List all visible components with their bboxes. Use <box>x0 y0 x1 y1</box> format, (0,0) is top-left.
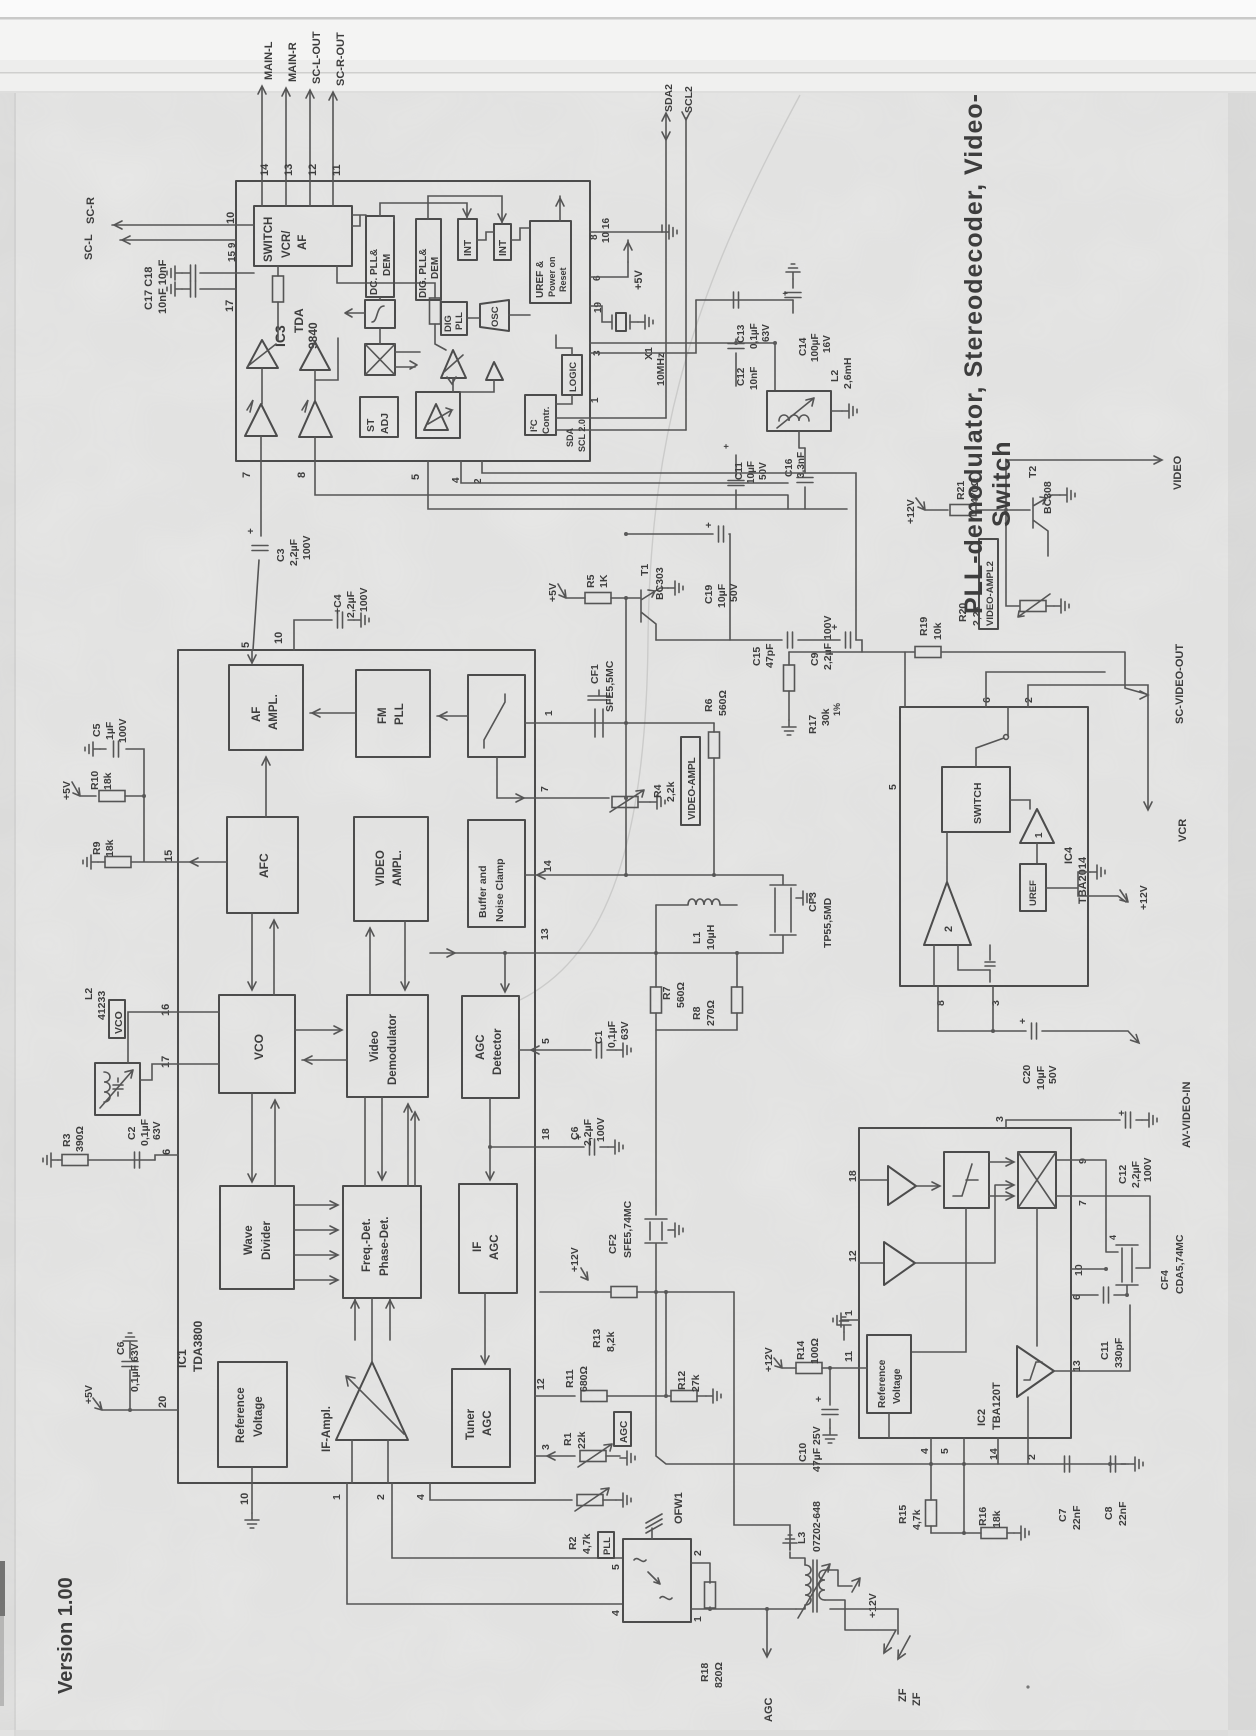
svg-text:C5: C5 <box>91 723 103 737</box>
svg-text:SWITCH: SWITCH <box>972 783 984 824</box>
svg-text:INT: INT <box>463 240 474 256</box>
svg-text:3,3nF: 3,3nF <box>796 452 807 478</box>
svg-text:UREF &: UREF & <box>535 261 546 298</box>
wire node15 <box>131 796 178 862</box>
box switch IC4 <box>942 767 1010 832</box>
capacitor C3 2.2uF 100V <box>252 546 268 551</box>
wire agcdet-ifagc <box>489 1098 491 1178</box>
svg-text:560Ω: 560Ω <box>675 982 687 1008</box>
box tuner AGC <box>452 1369 510 1467</box>
op-amp tri A1 <box>247 340 278 368</box>
wire SC-R input <box>112 224 254 226</box>
svg-text:1: 1 <box>331 1494 343 1500</box>
wire C15 C9 row <box>656 640 862 652</box>
wire pin5 column <box>963 1438 965 1533</box>
svg-text:VCR/: VCR/ <box>281 230 293 258</box>
svg-text:C6: C6 <box>115 1341 127 1355</box>
svg-text:8: 8 <box>935 1000 947 1006</box>
svg-text:63V: 63V <box>151 1121 163 1140</box>
box deemphasis switch <box>468 675 525 757</box>
box I2C Contr <box>525 395 556 435</box>
box AF AMPL <box>229 665 303 750</box>
capacitor C1 0.1uF 63V <box>597 1042 602 1058</box>
svg-text:2,6mH: 2,6mH <box>842 357 854 389</box>
svg-text:+: + <box>780 291 790 296</box>
svg-text:0,1µF 63V: 0,1µF 63V <box>129 1343 141 1392</box>
wire R19 to IC4 <box>904 652 906 707</box>
svg-text:C2: C2 <box>126 1126 138 1140</box>
switch block SWITCH VCR/AF <box>254 206 352 266</box>
op-amp tri 1 <box>1020 809 1054 843</box>
svg-text:AV-VIDEO-IN: AV-VIDEO-IN <box>1181 1082 1193 1148</box>
wire wavediv-freqdet 4 <box>294 1279 336 1281</box>
ground R3 <box>43 1153 58 1167</box>
resistor R9 18k <box>105 857 131 868</box>
wire L3 right +12V <box>825 1570 852 1586</box>
svg-text:C10: C10 <box>797 1443 809 1462</box>
svg-text:63V: 63V <box>619 1021 631 1040</box>
wire pin14 pin2 drops <box>998 1438 1028 1464</box>
power +5V T1 <box>558 584 585 598</box>
wire refvolt to bus <box>251 1467 253 1483</box>
capacitor C6 0.1uF 63V <box>129 1348 131 1410</box>
capacitor C17 <box>200 272 254 274</box>
svg-text:20: 20 <box>157 1396 169 1408</box>
wire wavediv-freqdet 1 <box>294 1204 336 1206</box>
svg-text:7: 7 <box>241 472 253 478</box>
svg-text:2,2µF: 2,2µF <box>582 1118 594 1146</box>
resistor internal R-b <box>430 298 441 324</box>
svg-text:Reference: Reference <box>235 1387 247 1443</box>
svg-text:+12V: +12V <box>867 1593 879 1618</box>
wire coil to pin16 <box>128 1012 219 1063</box>
version <box>1026 1685 1029 1688</box>
svg-text:R5: R5 <box>585 574 597 588</box>
svg-text:1µF: 1µF <box>104 721 116 740</box>
wire tri12 to mixer <box>915 1185 1012 1263</box>
svg-text:CF1: CF1 <box>589 664 601 684</box>
svg-text:SCL 2.0: SCL 2.0 <box>577 419 587 452</box>
svg-text:63V: 63V <box>761 324 772 342</box>
svg-text:R4: R4 <box>652 784 664 798</box>
svg-text:10µF: 10µF <box>716 583 728 608</box>
svg-text:ST: ST <box>365 418 377 432</box>
svg-text:2: 2 <box>943 926 955 932</box>
resistor R16 18k <box>981 1528 1007 1539</box>
svg-text:L2: L2 <box>83 988 95 1000</box>
svg-text:11: 11 <box>331 164 343 176</box>
svg-text:0,1µF: 0,1µF <box>749 323 760 349</box>
wire VIDEO out <box>1006 460 1160 510</box>
svg-text:Noise Clamp: Noise Clamp <box>494 858 506 922</box>
svg-text:C3: C3 <box>275 548 287 562</box>
svg-text:3: 3 <box>994 1116 1006 1122</box>
svg-text:8,2k: 8,2k <box>605 1331 617 1352</box>
resistor R12 27k <box>671 1391 697 1402</box>
wire audio out 13 <box>285 90 287 206</box>
resistor R15 4.7k <box>930 1438 932 1500</box>
wire pin2 riser VCR <box>1028 685 1148 808</box>
wire VCO to vdemod a <box>295 1029 340 1031</box>
capacitor C11 330pF <box>1071 1294 1127 1296</box>
svg-text:MAIN-R: MAIN-R <box>287 42 299 82</box>
svg-text:13: 13 <box>1071 1360 1083 1372</box>
svg-text:8: 8 <box>296 472 308 478</box>
svg-text:SC-L-OUT: SC-L-OUT <box>311 31 323 84</box>
capacitor C9 2.2uF 100V <box>846 632 851 648</box>
svg-text:AGC: AGC <box>489 1234 501 1260</box>
label VIDEO-AMPL2 boxed <box>979 539 998 629</box>
svg-text:R6: R6 <box>703 698 715 712</box>
box LOGIC <box>562 355 582 395</box>
svg-text:FM: FM <box>377 707 389 724</box>
svg-text:2: 2 <box>375 1494 387 1500</box>
capacitor C14 100uF 16V <box>792 279 794 313</box>
svg-text:Switch: Switch <box>988 440 1016 527</box>
svg-text:PLL: PLL <box>394 703 406 725</box>
op-amp tri 12 <box>859 1262 884 1264</box>
svg-text:2,2µF: 2,2µF <box>288 538 300 566</box>
svg-text:Contr.: Contr. <box>541 407 552 434</box>
box limiter amp <box>416 392 460 438</box>
wire 15 arrow <box>190 858 198 866</box>
svg-text:SWITCH: SWITCH <box>263 217 275 262</box>
wire pin8 to AV row <box>937 986 939 1031</box>
wire R19 row <box>789 652 1146 694</box>
svg-text:9: 9 <box>1077 1158 1089 1164</box>
wire pin8-16 riser <box>661 225 663 232</box>
wire logic i2c <box>556 335 572 404</box>
svg-text:2,2µF: 2,2µF <box>345 590 357 618</box>
svg-text:07Z02-648: 07Z02-648 <box>811 1501 823 1552</box>
svg-text:+C4: +C4 <box>332 594 344 614</box>
svg-text:C15: C15 <box>751 647 763 666</box>
power +5V bottom left <box>93 1398 178 1410</box>
svg-text:VCO: VCO <box>252 1034 266 1060</box>
resistor R21 470 <box>950 505 976 516</box>
wire hyst to mixer a <box>989 1161 1012 1163</box>
wire pin5 C1 row <box>519 1049 616 1051</box>
wire wavediv-freqdet 3 <box>294 1254 336 1256</box>
ground near pin11 <box>843 1332 845 1340</box>
wire switch top bus <box>352 215 394 226</box>
op-amp tri A6 <box>486 362 503 380</box>
svg-text:14: 14 <box>259 163 271 176</box>
svg-text:10: 10 <box>1073 1264 1085 1276</box>
svg-text:T2: T2 <box>1027 466 1039 478</box>
svg-text:AMPL.: AMPL. <box>268 694 280 730</box>
wire demod out pin13 <box>1054 1305 1130 1371</box>
wire pin10 row <box>1071 1268 1106 1270</box>
svg-text:15 9: 15 9 <box>227 242 238 262</box>
svg-text:MAIN-L: MAIN-L <box>263 41 275 80</box>
svg-text:C13: C13 <box>736 324 747 343</box>
resistor internal R-a <box>277 266 279 276</box>
svg-text:1: 1 <box>843 1310 855 1316</box>
wire vampl-vdemod b <box>404 921 406 988</box>
box OSC <box>480 300 509 331</box>
svg-text:47pF: 47pF <box>764 643 776 668</box>
wire pin3 row R1 <box>535 1455 575 1457</box>
svg-text:R19: R19 <box>918 617 930 636</box>
svg-text:12: 12 <box>847 1250 859 1262</box>
wire wavediv-freqdet 2 <box>294 1229 336 1231</box>
wire VCO-wave divider a <box>251 1093 253 1180</box>
wire switch contact <box>976 707 1008 767</box>
wire top cap rail <box>696 299 793 301</box>
svg-text:T1: T1 <box>639 564 651 576</box>
wire int bus a <box>380 203 467 219</box>
capacitor C18 <box>200 288 236 290</box>
resistor R2 4.7k variable <box>577 1495 603 1506</box>
wire refvolt down <box>888 1413 890 1438</box>
wire pin4 R2 <box>430 1483 572 1500</box>
wire node column R11 R12 <box>665 1292 667 1396</box>
wire R16 row <box>931 1532 1014 1534</box>
svg-text:AF: AF <box>251 707 263 722</box>
svg-text:100Ω: 100Ω <box>809 1338 821 1364</box>
box VCO <box>219 995 295 1093</box>
resistor R19 10k <box>915 647 941 658</box>
wire pin18 C6 row <box>490 1146 608 1148</box>
svg-text:VIDEO-AMPL: VIDEO-AMPL <box>687 757 698 820</box>
svg-text:ZF: ZF <box>897 1688 909 1702</box>
wire AFC to AF AMPL <box>265 757 267 817</box>
wire CF1 row pin1 <box>525 722 714 724</box>
svg-text:6: 6 <box>161 1149 173 1155</box>
svg-text:C6: C6 <box>569 1126 581 1140</box>
op-amp tri A3 <box>245 404 277 436</box>
svg-text:13: 13 <box>539 928 551 940</box>
wire sw right leg <box>337 266 435 298</box>
svg-text:BC303: BC303 <box>654 567 666 600</box>
svg-text:10µF: 10µF <box>1035 1065 1047 1090</box>
svg-text:4: 4 <box>610 1610 622 1616</box>
svg-text:C7: C7 <box>1057 1508 1069 1522</box>
wire ifagc-tuneragc <box>484 1293 486 1362</box>
filter CF2 SFE5.74MC <box>645 1219 667 1292</box>
wire AFC-VCO a <box>251 913 253 988</box>
wire pin12 row <box>535 1395 575 1397</box>
svg-text:820Ω: 820Ω <box>713 1662 725 1688</box>
resistor R13 8.2k <box>540 1291 610 1293</box>
svg-text:R17: R17 <box>807 715 819 734</box>
wire FM PLL to AF AMPL <box>310 712 356 714</box>
power +5V arrow IC3 <box>627 240 629 262</box>
wire pin18 bus <box>590 342 775 344</box>
wire IC3 pin2 line <box>482 461 856 640</box>
svg-text:3: 3 <box>990 1000 1002 1006</box>
svg-text:3: 3 <box>540 1444 552 1450</box>
svg-text:15: 15 <box>163 850 175 862</box>
ground pin10 <box>251 1483 253 1513</box>
svg-text:22nF: 22nF <box>1117 1501 1129 1526</box>
svg-text:DC. PLL&: DC. PLL& <box>369 249 380 295</box>
wire mixer down to demod <box>1036 1208 1038 1346</box>
box reference voltage IC2 <box>867 1335 911 1413</box>
svg-text:4: 4 <box>919 1448 931 1454</box>
svg-text:+5V: +5V <box>633 269 645 290</box>
svg-text:R18: R18 <box>699 1663 711 1682</box>
wire tri1 input <box>1010 800 1030 809</box>
wire demodline <box>345 309 365 317</box>
mixer box IC2 <box>1018 1152 1056 1208</box>
svg-text:Video: Video <box>369 1031 381 1062</box>
wire pin1 to OFW1 <box>347 1483 623 1604</box>
box video ampl <box>354 817 428 921</box>
svg-text:1: 1 <box>692 1616 704 1622</box>
svg-text:VIDEO: VIDEO <box>1172 455 1184 490</box>
svg-text:680Ω: 680Ω <box>578 1366 590 1392</box>
wire switch to FM PLL <box>437 715 468 717</box>
svg-text:C12: C12 <box>1117 1165 1129 1184</box>
svg-text:R7: R7 <box>661 986 673 1000</box>
wire uref feed <box>477 228 530 240</box>
box IF AGC <box>459 1184 517 1293</box>
power +12V IC4 <box>1078 888 1126 902</box>
svg-text:0,1µF: 0,1µF <box>606 1020 618 1048</box>
svg-text:6: 6 <box>592 275 603 281</box>
box INT 1 <box>458 219 477 260</box>
capacitor C12 10nF <box>735 339 737 386</box>
svg-text:BC308: BC308 <box>1042 481 1054 514</box>
resistor R17 30k <box>788 652 790 665</box>
svg-text:6: 6 <box>981 697 993 703</box>
wire A6 dn <box>460 380 494 392</box>
transistor T2 BC308 <box>1033 495 1060 556</box>
svg-text:18k: 18k <box>991 1510 1003 1528</box>
resistor R5 1K <box>585 593 611 604</box>
wire hyst to mixer b <box>989 1195 1012 1197</box>
svg-text:TBA120T: TBA120T <box>991 1382 1003 1430</box>
svg-text:I²C: I²C <box>529 419 540 432</box>
wire SCL2 riser <box>685 118 687 430</box>
crystal X1 10MHz <box>612 315 630 329</box>
svg-text:R1: R1 <box>562 1432 574 1446</box>
wire L2 bottom <box>799 431 805 448</box>
svg-text:Reset: Reset <box>558 267 568 292</box>
capacitor C16 3.3nF <box>804 448 806 509</box>
svg-text:IC3: IC3 <box>272 325 288 347</box>
svg-text:INT: INT <box>498 240 509 256</box>
svg-text:4,7k: 4,7k <box>581 1533 593 1554</box>
svg-text:DEM: DEM <box>382 254 393 276</box>
wire ifampl feet <box>352 1440 388 1483</box>
svg-text:4,7k: 4,7k <box>911 1509 923 1530</box>
wire tri2 to switch <box>946 832 948 882</box>
capacitor C5 1uF 100V <box>100 749 144 796</box>
svg-text:7: 7 <box>1077 1200 1089 1206</box>
svg-text:10 16: 10 16 <box>601 218 612 243</box>
wire vdemod-freqdet a <box>364 1097 366 1186</box>
svg-text:SC-R-OUT: SC-R-OUT <box>335 32 347 86</box>
capacitor IC4 internal <box>985 945 995 982</box>
wire pin14 buffer row <box>525 874 783 876</box>
wire IC3 pin4 line <box>461 461 788 483</box>
svg-text:CF2: CF2 <box>607 1234 619 1254</box>
svg-text:+: + <box>246 528 257 534</box>
svg-text:AGC: AGC <box>475 1034 487 1060</box>
IC4 outer boundary <box>900 707 1088 986</box>
svg-text:+12V: +12V <box>763 1347 775 1372</box>
svg-text:R14: R14 <box>795 1341 807 1360</box>
svg-text:SDA: SDA <box>565 427 575 447</box>
wire long row to IC2 pin4 <box>656 1292 1126 1464</box>
wire i2c sda out <box>556 418 686 430</box>
svg-text:C8: C8 <box>1103 1506 1115 1520</box>
wire pin19 to crystal <box>590 306 612 322</box>
svg-text:CF4: CF4 <box>1159 1270 1171 1290</box>
svg-text:5: 5 <box>540 1038 552 1044</box>
wire +5V pin16 <box>590 231 662 233</box>
svg-text:Tuner: Tuner <box>465 1408 477 1440</box>
svg-text:ADJ: ADJ <box>379 413 391 434</box>
box AGC detector <box>462 996 519 1098</box>
svg-text:IF: IF <box>472 1242 484 1252</box>
svg-text:1: 1 <box>544 710 555 716</box>
capacitor C2 0.1uF 63V <box>135 1152 140 1168</box>
svg-text:IC2: IC2 <box>976 1409 988 1426</box>
IC2 outer boundary <box>859 1128 1071 1438</box>
svg-text:5: 5 <box>610 1564 622 1570</box>
svg-text:TP55,5MD: TP55,5MD <box>822 897 834 948</box>
svg-text:50V: 50V <box>728 583 740 602</box>
svg-text:Voltage: Voltage <box>892 1368 903 1404</box>
svg-text:100µF: 100µF <box>810 333 821 362</box>
svg-text:AFC: AFC <box>257 853 271 878</box>
svg-text:10MHz: 10MHz <box>655 353 667 386</box>
svg-text:+: + <box>814 1396 825 1402</box>
comb mark <box>646 1514 662 1539</box>
svg-text:10: 10 <box>273 632 285 644</box>
svg-text:R2: R2 <box>567 1536 579 1550</box>
svg-text:Wave: Wave <box>243 1225 255 1255</box>
wire line13 into agc det <box>504 953 506 990</box>
wire SDA2 riser <box>665 115 667 418</box>
pin 7 line and R4 <box>497 757 609 798</box>
svg-text:22k: 22k <box>576 1431 588 1449</box>
svg-text:UREF: UREF <box>1028 880 1039 906</box>
wire tri2 feet <box>934 945 990 986</box>
capacitor C8 22nF <box>1111 1456 1116 1472</box>
resistor R4 2.2k variable <box>612 797 638 808</box>
capacitor C15 47pF <box>788 632 793 648</box>
wire mixer out <box>395 352 420 369</box>
wire int bus b <box>428 196 502 224</box>
svg-text:10k: 10k <box>932 622 944 640</box>
svg-text:C17 C18: C17 C18 <box>143 267 155 310</box>
svg-text:CDA5,74MC: CDA5,74MC <box>1174 1234 1186 1294</box>
wire DCPLL-integ <box>379 297 381 300</box>
svg-text:+: + <box>1018 1018 1029 1024</box>
svg-text:CF3: CF3 <box>807 892 819 912</box>
svg-text:R10: R10 <box>89 771 101 790</box>
svg-text:DIG: DIG <box>443 315 454 332</box>
wire pin2 to OFW1 <box>392 1483 623 1558</box>
wire demod down <box>1027 1397 1029 1438</box>
op-amp tri 2 <box>924 882 971 945</box>
svg-text:390Ω: 390Ω <box>74 1126 86 1152</box>
wire ifampl-freqdet <box>371 1298 373 1362</box>
op-amp U3 outer boundary IC3 <box>236 181 590 461</box>
svg-text:SC-L: SC-L <box>83 234 95 260</box>
box UREF <box>1020 864 1046 911</box>
wire tri1 to uref <box>1036 843 1038 864</box>
resistor R7 560 <box>655 905 657 987</box>
svg-text:R16: R16 <box>977 1507 989 1526</box>
svg-text:10: 10 <box>225 212 237 224</box>
svg-text:AGC: AGC <box>619 1421 630 1443</box>
